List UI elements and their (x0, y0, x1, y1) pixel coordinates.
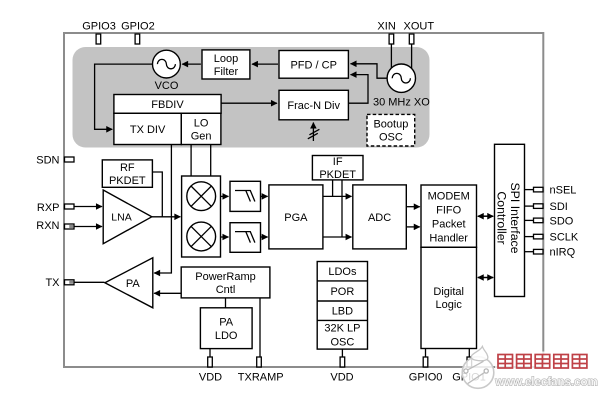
svg-text:OSC: OSC (330, 336, 354, 348)
svg-text:GPIO2: GPIO2 (121, 21, 155, 33)
svg-text:www.elecfans.com: www.elecfans.com (494, 377, 597, 389)
svg-text:RF: RF (120, 162, 135, 174)
svg-text:Controller: Controller (494, 191, 508, 244)
svg-text:ADC: ADC (368, 212, 391, 224)
svg-text:TXRAMP: TXRAMP (238, 372, 284, 384)
svg-text:SDN: SDN (36, 154, 59, 166)
svg-text:GPIO0: GPIO0 (409, 372, 443, 384)
svg-text:Gen: Gen (191, 130, 212, 142)
svg-text:VDD: VDD (199, 372, 222, 384)
svg-text:GPIO3: GPIO3 (82, 21, 116, 33)
svg-text:Loop: Loop (214, 53, 238, 65)
svg-text:PA: PA (126, 278, 141, 290)
svg-text:SPI Interface: SPI Interface (508, 182, 522, 253)
svg-text:Frac-N Div: Frac-N Div (287, 100, 340, 112)
svg-text:SCLK: SCLK (550, 232, 579, 244)
svg-text:LDO: LDO (215, 330, 238, 342)
svg-text:OSC: OSC (379, 132, 403, 144)
svg-text:Bootup: Bootup (373, 119, 408, 131)
svg-text:RXN: RXN (36, 220, 59, 232)
svg-text:XIN: XIN (377, 21, 395, 33)
svg-text:30 MHz XO: 30 MHz XO (373, 96, 430, 108)
svg-text:Filter: Filter (214, 66, 239, 78)
svg-text:Digital: Digital (433, 286, 464, 298)
svg-text:XOUT: XOUT (404, 21, 435, 33)
svg-text:32K LP: 32K LP (324, 322, 360, 334)
svg-text:nSEL: nSEL (550, 185, 577, 197)
svg-text:TX DIV: TX DIV (130, 124, 166, 136)
svg-text:PA: PA (219, 316, 234, 328)
svg-text:SDO: SDO (550, 215, 574, 227)
svg-text:Packet: Packet (432, 218, 466, 230)
svg-text:PKDET: PKDET (109, 175, 146, 187)
svg-text:Cntl: Cntl (216, 284, 236, 296)
svg-text:VDD: VDD (330, 372, 353, 384)
svg-text:PKDET: PKDET (319, 169, 356, 181)
svg-text:LBD: LBD (332, 306, 353, 318)
svg-text:MODEM: MODEM (428, 190, 470, 202)
svg-text:PowerRamp: PowerRamp (195, 271, 256, 283)
svg-text:Logic: Logic (436, 299, 463, 311)
svg-text:LO: LO (194, 117, 209, 129)
svg-text:TX: TX (45, 277, 60, 289)
svg-text:LDOs: LDOs (328, 266, 357, 278)
svg-text:POR: POR (330, 286, 354, 298)
svg-text:Handler: Handler (429, 232, 468, 244)
svg-text:LNA: LNA (111, 211, 131, 223)
svg-text:PGA: PGA (284, 212, 308, 224)
svg-text:PFD / CP: PFD / CP (290, 59, 336, 71)
svg-text:RXP: RXP (37, 202, 60, 214)
svg-text:IF: IF (333, 156, 343, 168)
svg-text:SDI: SDI (550, 201, 568, 213)
svg-text:FBDIV: FBDIV (151, 99, 184, 111)
svg-text:FIFO: FIFO (436, 204, 461, 216)
svg-text:nIRQ: nIRQ (550, 247, 576, 259)
svg-text:VCO: VCO (155, 80, 179, 92)
